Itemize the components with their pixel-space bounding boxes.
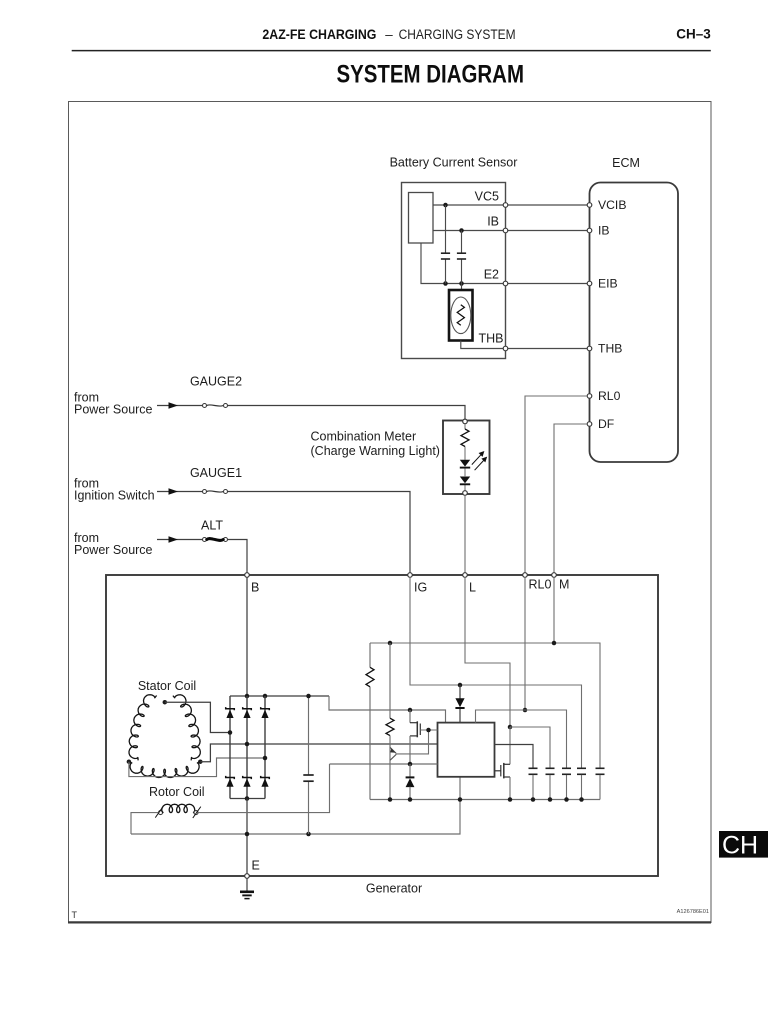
node E2 junction A <box>443 281 448 286</box>
svg-text:SYSTEM DIAGRAM: SYSTEM DIAGRAM <box>337 61 525 89</box>
arrow ALT <box>169 536 179 542</box>
svg-text:Stator Coil: Stator Coil <box>138 679 196 693</box>
generator pin M <box>552 573 557 578</box>
svg-text:IG: IG <box>414 581 427 595</box>
rectifier top bus <box>230 695 329 697</box>
node phase2 junction <box>245 742 250 747</box>
frame bottom rule <box>68 921 711 923</box>
transistor Q1 <box>389 736 391 800</box>
svg-text:IB: IB <box>598 223 610 237</box>
fuse ALT <box>203 538 207 542</box>
ground symbol <box>246 878 248 891</box>
rotor brush left <box>155 806 163 817</box>
svg-text:Battery Current Sensor: Battery Current Sensor <box>390 156 518 170</box>
arrow GAUGE1 <box>169 488 179 494</box>
wire regulator ground bus <box>370 799 600 801</box>
capacitor C5 <box>562 767 571 769</box>
node capacitor ground <box>306 832 311 837</box>
svg-text:2AZ-FE CHARGING: 2AZ-FE CHARGING <box>262 27 376 42</box>
wire L branch to C6 <box>510 727 550 768</box>
wire from source to fuse GAUGE2 <box>157 405 202 407</box>
sensor pin VC5 <box>503 203 508 208</box>
wire IG internal <box>410 577 582 768</box>
node bus C5 <box>564 797 569 802</box>
wire IB <box>433 230 590 232</box>
capacitor C8 <box>596 767 605 769</box>
capacitor C3 <box>303 774 313 776</box>
wire M bus 643 <box>370 643 600 768</box>
wire Q1 base to Q3 gate node <box>396 730 428 754</box>
node stator top <box>163 700 168 705</box>
svg-text:GAUGE1: GAUGE1 <box>190 466 242 480</box>
node bus Q2 <box>508 797 513 802</box>
node bus C6 <box>548 797 553 802</box>
diagram frame <box>69 102 712 923</box>
svg-text:Generator: Generator <box>366 882 422 896</box>
rectifier column 2 <box>246 696 248 799</box>
node bus C7 <box>579 797 584 802</box>
node C3 top <box>306 694 311 699</box>
node R2 top <box>388 641 393 646</box>
svg-text:IB: IB <box>487 215 499 229</box>
svg-text:RL0: RL0 <box>529 578 552 592</box>
wire IC out to C4 <box>495 745 534 769</box>
node top bus right <box>263 694 268 699</box>
wire stator phase 1 <box>165 702 230 732</box>
fuse GAUGE2 <box>203 404 207 408</box>
transistor Q3 <box>409 710 411 723</box>
wire L to Q2 drain <box>509 727 511 764</box>
diode D7 <box>409 764 411 777</box>
ECM pin EIB <box>587 281 592 286</box>
wire B branch to IC <box>329 696 446 723</box>
wire Q3 source down <box>409 736 411 764</box>
node phase1 junction <box>228 730 233 735</box>
node D7 top <box>408 762 413 767</box>
svg-text:THB: THB <box>598 341 622 355</box>
node bus D7 <box>408 797 413 802</box>
rotor brush right <box>193 807 201 818</box>
rotor coil L1 <box>162 804 195 812</box>
node E2 junction B <box>459 281 464 286</box>
combination meter box <box>443 421 490 495</box>
capacitor C1 leads <box>445 205 447 253</box>
svg-text:–: – <box>385 27 393 42</box>
svg-text:(Charge Warning Light): (Charge Warning Light) <box>311 444 440 458</box>
thermistor resistor element <box>457 305 464 325</box>
diode D2 top <box>243 707 252 710</box>
node IB junction <box>459 228 464 233</box>
capacitor C4 <box>529 767 538 769</box>
svg-text:Power Source: Power Source <box>74 403 153 417</box>
node phase3 junction <box>263 756 268 761</box>
generator pin L <box>463 573 468 578</box>
header rule <box>72 50 711 52</box>
voltage regulator IC U1 <box>438 723 495 777</box>
svg-text:E: E <box>252 859 260 873</box>
capacitor C2 <box>457 252 466 254</box>
wire from source to fuse ALT <box>157 539 202 541</box>
wire ALT to generator B <box>228 540 247 573</box>
rotor slip ring left <box>159 811 163 815</box>
node bus IC stub <box>458 797 463 802</box>
capacitor C6 <box>546 767 555 769</box>
diode D4 bottom <box>226 776 235 779</box>
svg-text:E2: E2 <box>484 268 499 282</box>
wire Q3 gate to IC <box>420 729 437 731</box>
ECM pin VCIB <box>587 203 592 208</box>
wire VC5 <box>433 204 590 206</box>
wire THB <box>461 341 590 349</box>
svg-text:RL0: RL0 <box>598 389 621 403</box>
rotor slip ring right <box>194 811 198 815</box>
capacitor C5 leads <box>566 775 568 800</box>
svg-text:Ignition Switch: Ignition Switch <box>74 489 155 503</box>
wire rotor left lead <box>131 813 158 834</box>
resistor R2 lead top <box>389 643 391 718</box>
svg-text:CH: CH <box>722 832 758 860</box>
sensor pin THB <box>503 346 508 351</box>
wire stator phase 3 <box>129 758 265 777</box>
wire L internal <box>465 577 510 727</box>
LED D1 <box>460 460 470 467</box>
wire E line <box>246 799 248 874</box>
wire GAUGE2 to combination meter <box>228 406 465 420</box>
svg-text:B: B <box>251 581 259 595</box>
LED light arrows <box>472 452 487 470</box>
wire stator phase 2 <box>200 744 437 762</box>
rectifier bottom bus <box>230 798 265 800</box>
sensor pin E2 <box>503 281 508 286</box>
wire RL0 from ECM to generator <box>525 396 587 573</box>
transistor Q2 <box>504 763 510 765</box>
resistor R2 <box>386 718 394 735</box>
wire RL0 to IC and C5 <box>476 710 567 768</box>
generator box <box>106 575 658 876</box>
fuse GAUGE1 <box>203 490 207 494</box>
ECM pin RL0 <box>587 394 592 399</box>
wire Q2 source to bus <box>509 777 511 800</box>
node Q3 drain branch <box>408 708 413 713</box>
svg-text:VC5: VC5 <box>475 190 499 204</box>
thermistor box <box>449 290 473 341</box>
generator pin E <box>245 874 250 879</box>
diode D6 bottom <box>261 776 270 779</box>
wire rotor right lead <box>198 764 329 813</box>
node top bus B <box>245 694 250 699</box>
wire E2 from element <box>421 243 590 284</box>
ECM box U2 <box>590 183 679 463</box>
capacitor C3 leads <box>308 696 310 775</box>
svg-text:CHARGING SYSTEM: CHARGING SYSTEM <box>399 27 516 42</box>
meter pin top <box>463 419 468 424</box>
node bus R1 <box>388 797 393 802</box>
node Q3 gate <box>426 728 431 733</box>
wire DF from ECM to generator <box>554 424 587 573</box>
svg-text:EIB: EIB <box>598 276 618 290</box>
node L cap branch <box>508 725 513 730</box>
svg-text:VCIB: VCIB <box>598 198 626 212</box>
resistor R1 leads <box>369 643 371 667</box>
wire RL0 internal <box>524 577 526 710</box>
stator coil winding 1 <box>173 695 200 761</box>
svg-text:M: M <box>559 578 569 592</box>
generator pin B <box>245 573 250 578</box>
arrow GAUGE2 <box>169 402 179 408</box>
capacitor C7 <box>577 767 586 769</box>
node stator bottom-right <box>198 759 203 764</box>
wire from source to fuse GAUGE1 <box>157 491 202 493</box>
node stator bottom-left <box>127 759 132 764</box>
meter internal wire <box>464 424 466 429</box>
sensor pin IB <box>503 228 508 233</box>
rectifier column 1 <box>229 696 231 799</box>
node M junction <box>552 641 557 646</box>
node bottom bus <box>245 796 250 801</box>
wire meter to generator L <box>464 495 466 572</box>
node bus C4 <box>531 797 536 802</box>
ECM pin DF <box>587 422 592 427</box>
wire B line <box>246 577 248 696</box>
diode D3 top <box>261 707 270 710</box>
node RL0 junction <box>523 708 528 713</box>
wire GAUGE1 to generator IG <box>228 492 410 573</box>
svg-text:DF: DF <box>598 417 614 431</box>
svg-text:ALT: ALT <box>201 519 223 533</box>
wire ground return bus <box>131 777 460 834</box>
thermistor lead top <box>461 284 463 291</box>
rectifier column 3 <box>264 696 266 799</box>
battery current sensor box <box>402 183 506 359</box>
resistor R1 <box>366 667 374 687</box>
svg-text:A126786E01: A126786E01 <box>677 909 709 915</box>
svg-text:T: T <box>72 910 78 920</box>
meter pin bottom <box>463 491 468 496</box>
svg-text:Rotor Coil: Rotor Coil <box>149 785 205 799</box>
diode D1 top <box>226 707 235 710</box>
svg-text:CH–3: CH–3 <box>676 25 711 41</box>
stator coil winding 2 <box>129 762 200 778</box>
svg-text:Power Source: Power Source <box>74 543 153 557</box>
wire field line <box>330 763 438 765</box>
svg-text:L: L <box>469 581 476 595</box>
generator pin RL0 <box>523 573 528 578</box>
capacitor C1 <box>441 252 450 254</box>
svg-text:Combination Meter: Combination Meter <box>311 430 417 444</box>
thermistor ellipse <box>451 297 471 334</box>
sensor hall element <box>409 193 434 244</box>
LED D2 <box>460 477 470 484</box>
stator coil winding 3 <box>129 695 157 761</box>
node VC5 junction <box>443 203 448 208</box>
CH chapter tab <box>719 831 768 858</box>
wire M internal <box>553 577 555 643</box>
diode D5 <box>459 685 461 699</box>
resistor meter <box>461 429 469 447</box>
svg-text:ECM: ECM <box>612 156 640 170</box>
ECM pin IB <box>587 228 592 233</box>
svg-text:GAUGE2: GAUGE2 <box>190 375 242 389</box>
ECM pin THB <box>587 346 592 351</box>
node E ground cross <box>245 832 250 837</box>
svg-text:THB: THB <box>479 332 504 346</box>
diode D5 bottom <box>243 776 252 779</box>
node D5 top <box>458 683 463 688</box>
capacitor C2 leads <box>461 231 463 254</box>
generator pin IG <box>408 573 413 578</box>
